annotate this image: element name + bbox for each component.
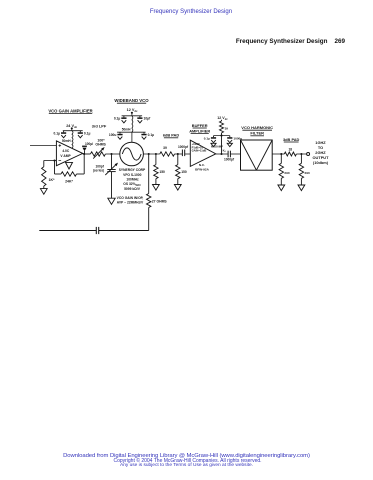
svg-text:(10dbm): (10dbm) — [313, 160, 329, 165]
svg-text:1K*: 1K* — [49, 178, 55, 182]
svg-text:18: 18 — [289, 148, 293, 152]
wire cap to buffer — [185, 153, 191, 155]
svg-text:3dB PAD: 3dB PAD — [283, 137, 300, 142]
resistor 150 (6dB pad shunt 2) — [176, 154, 187, 185]
svg-text:3rd LPF: 3rd LPF — [92, 123, 107, 128]
label VCO HARMONIC FILTER — [241, 125, 273, 136]
capacitor 100u (12V VCO lower-left) — [109, 132, 123, 139]
label 3rd LPF — [92, 123, 107, 128]
svg-text:0.1µ: 0.1µ — [148, 133, 155, 137]
wire 12V rail upper — [122, 115, 143, 117]
capacitor 100pf at op-amp output — [82, 142, 93, 154]
svg-text:39: 39 — [163, 146, 167, 150]
wire op-amp inverting input — [44, 160, 57, 162]
svg-text:V AMP: V AMP — [60, 154, 71, 158]
capacitor 1000pf (before buffer) — [178, 145, 189, 156]
node 12V supply VCO — [131, 112, 133, 114]
VCO oscillator circle — [120, 142, 144, 166]
svg-text:50mH: 50mH — [62, 139, 71, 143]
wire bottom feedback line left part — [39, 230, 96, 232]
ground (6dB pad shunt 1) — [153, 185, 160, 191]
svg-text:50mH: 50mH — [122, 128, 131, 132]
underline WIDEBAND VCO — [117, 102, 146, 104]
ground (below series cap) — [108, 198, 115, 204]
svg-text:4.0C: 4.0C — [62, 149, 70, 153]
capacitor 1000p (buffer right) — [227, 136, 242, 147]
svg-text:6dB PAD: 6dB PAD — [163, 133, 180, 138]
inductor 50mH choke (VCO supply) — [122, 116, 133, 132]
svg-text:VCO GAIN AMPLIFIER: VCO GAIN AMPLIFIER — [48, 108, 92, 113]
resistor 39 (buffer bias) — [220, 120, 229, 136]
svg-text:BFW-92A: BFW-92A — [195, 167, 209, 171]
svg-text:10µf: 10µf — [144, 117, 152, 121]
wire 24V rail — [63, 130, 83, 132]
capacitor 1000pf (after buffer) — [224, 151, 235, 162]
capacitor 100pf (series) variable to ground — [93, 154, 118, 198]
svg-text:0.1µ: 0.1µ — [54, 132, 61, 136]
wire buffer bias to output — [211, 136, 227, 154]
node 3dB pad output — [300, 153, 302, 155]
svg-text:N.C.: N.C. — [199, 163, 205, 167]
svg-text:AVP ~ 22MMHz/V: AVP ~ 22MMHz/V — [117, 201, 144, 205]
VCO part text block — [119, 168, 146, 191]
underline 6dB PAD — [164, 137, 178, 139]
label BUFFER AMPLIFIER — [189, 123, 210, 134]
resistor 39 (6dB pad series) — [160, 146, 175, 156]
node op-amp output — [83, 153, 85, 155]
node VCO output junction — [148, 153, 150, 155]
wire VCO output — [143, 153, 159, 155]
ground (3dB pad shunt 1) — [278, 185, 285, 191]
svg-text:0.1µ: 0.1µ — [114, 117, 121, 121]
node VCO input — [110, 153, 112, 155]
node 3dB pad input — [280, 153, 282, 155]
filter box — [241, 140, 273, 170]
inductor 50mH choke (op-amp supply) — [62, 131, 73, 148]
ground (below op-amp) — [66, 162, 73, 169]
svg-text:FILTER: FILTER — [250, 131, 264, 136]
output terminal — [307, 153, 310, 156]
ground (below 1K resistor) — [40, 189, 47, 195]
svg-text:150: 150 — [181, 170, 187, 174]
svg-text:OHMS: OHMS — [95, 142, 106, 146]
resistor R 1K* (inverting input to ground) — [42, 161, 55, 189]
node 24V supply — [71, 127, 73, 129]
label WIDEBAND VCO — [114, 98, 149, 103]
svg-text:27 OHMS: 27 OHMS — [152, 200, 168, 204]
footer copyright (blue) — [0, 453, 373, 459]
svg-text:39: 39 — [225, 127, 229, 131]
ground (6dB pad shunt 2) — [174, 185, 181, 191]
svg-text:MODAMP: MODAMP — [211, 145, 223, 149]
supply +24V label — [66, 124, 77, 129]
node buffer bias — [220, 135, 222, 137]
svg-text:GAIN=11dB: GAIN=11dB — [192, 149, 207, 153]
resistor 290 (3dB pad shunt 2) — [299, 154, 310, 185]
svg-text:1000pf: 1000pf — [178, 145, 189, 149]
svg-text:BUFFER: BUFFER — [192, 123, 208, 128]
node 6dB pad input — [155, 153, 157, 155]
wire cap to filter — [230, 153, 240, 155]
svg-text:VFO S-1000: VFO S-1000 — [123, 173, 141, 177]
label 6dB PAD — [163, 133, 180, 138]
svg-text:WIDEBAND VCO: WIDEBAND VCO — [114, 98, 149, 103]
resistor 150 (6dB pad shunt 1) — [154, 154, 165, 185]
label output — [313, 140, 330, 165]
capacitor 0.1u (12V VCO upper-left) — [114, 116, 127, 123]
svg-text:VCO HARMONIC: VCO HARMONIC — [241, 125, 273, 130]
wire op-amp noninverting input — [30, 145, 57, 147]
resistor 100* OHMS variable — [83, 138, 107, 158]
wire 6dB pad output — [175, 153, 183, 155]
resistor 18 (3dB pad series) — [284, 148, 296, 156]
svg-text:1000pf: 1000pf — [224, 158, 235, 162]
node inverting input junction — [53, 159, 55, 161]
node 6dB pad output — [177, 153, 179, 155]
svg-text:150: 150 — [159, 170, 165, 174]
svg-text:(series): (series) — [93, 168, 104, 172]
header running title (blue) — [5, 9, 373, 15]
svg-text:100µl: 100µl — [85, 142, 93, 146]
page header bold title and page number — [236, 38, 345, 45]
wire 12V rail lower — [117, 131, 146, 133]
underline 3dB PAD — [284, 141, 299, 143]
wire buffer bias rail — [214, 135, 230, 137]
svg-text:0.1µ: 0.1µ — [84, 132, 91, 136]
capacitor 0.1u (24V right) — [78, 131, 91, 138]
capacitor 0.1u (24V left) — [54, 131, 67, 138]
capacitor 0.1u (buffer left) — [204, 136, 216, 147]
svg-text:290: 290 — [284, 171, 289, 175]
resistor 27 OHMS (feedback leg) — [147, 154, 168, 231]
svg-text:24K*: 24K* — [65, 180, 73, 184]
wire 12V stem VCO — [131, 113, 133, 116]
label buffer part number — [195, 163, 209, 171]
svg-text:5099 kΩ/V: 5099 kΩ/V — [124, 187, 141, 191]
supply +12V label (VCO) — [127, 108, 138, 113]
wire to VCO input node — [105, 153, 119, 155]
capacitor 10uf (12V VCO upper-right) — [137, 116, 151, 123]
capacitor 0.1u (12V VCO lower-right) — [141, 132, 154, 139]
node buffer output junction — [220, 153, 222, 155]
svg-text:SYNERGY CORP: SYNERGY CORP — [119, 168, 146, 172]
label 3dB PAD — [283, 137, 300, 142]
ground (3dB pad shunt 2) — [298, 185, 305, 191]
resistor 290 (3dB pad shunt 1) — [279, 154, 290, 185]
wire bottom feedback line right part — [99, 230, 149, 232]
buffer amplifier triangle U2 — [190, 140, 216, 166]
label VCO GAIN AMPLIFIER — [48, 108, 92, 113]
svg-text:290: 290 — [305, 171, 310, 175]
wire filter output — [272, 153, 284, 155]
svg-text:VCO GAIN IN/OP,: VCO GAIN IN/OP, — [117, 196, 144, 200]
supply +12V label (buffer) — [217, 116, 228, 121]
VCO gain note text — [117, 196, 144, 205]
svg-text:100MHz: 100MHz — [126, 177, 139, 181]
capacitor (bottom feedback line) — [96, 227, 98, 234]
underline VCO GAIN AMPLIFIER — [49, 113, 92, 115]
op-amp U1 VCO gain amplifier — [56, 141, 82, 166]
wire VCO top pin — [131, 132, 133, 142]
wire 24V stem — [71, 128, 73, 130]
svg-text:12 Vdc: 12 Vdc — [217, 116, 228, 121]
wire buffer output — [216, 153, 228, 155]
resistor R 24K* feedback — [55, 154, 85, 184]
svg-text:100u: 100u — [109, 133, 117, 137]
svg-text:AMPLIFIER: AMPLIFIER — [189, 128, 210, 133]
wire 3dB pad output — [296, 153, 306, 155]
svg-text:0.1µ: 0.1µ — [204, 137, 210, 141]
svg-text:K2: K2 — [223, 148, 227, 153]
